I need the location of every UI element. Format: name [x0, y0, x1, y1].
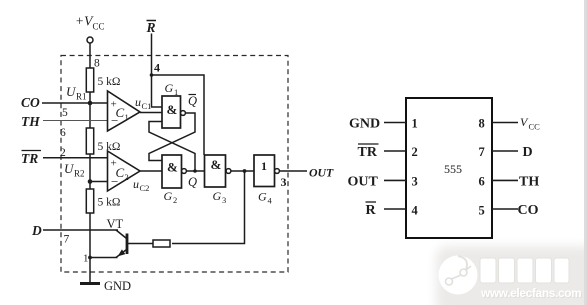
wire emitter to ground rail	[88, 256, 117, 260]
dashed 555 internal boundary box	[61, 56, 288, 273]
pin 7 number	[479, 145, 485, 159]
input CO label	[21, 95, 40, 110]
D pin label	[523, 145, 533, 160]
svg-text:8: 8	[94, 58, 100, 70]
wire C1 out to G1	[140, 112, 162, 114]
pin 6 line TH	[492, 179, 518, 181]
R pin label	[366, 202, 377, 218]
wire G3G4 node down to base resistor	[172, 171, 245, 244]
svg-text:TR: TR	[358, 145, 378, 160]
svg-text:R: R	[366, 203, 377, 218]
svg-text:CO: CO	[21, 95, 40, 110]
svg-text:7: 7	[64, 234, 70, 246]
svg-text:Q: Q	[188, 94, 197, 108]
svg-text:TH: TH	[519, 175, 539, 190]
wire OUT	[279, 170, 307, 172]
svg-text:www.elecfans.com: www.elecfans.com	[480, 286, 581, 300]
transistor VT	[116, 230, 127, 258]
svg-text:1: 1	[261, 159, 267, 173]
G1 output bubble	[181, 111, 186, 116]
wire TR to C2 plus	[43, 157, 108, 159]
R3 value 5k	[98, 197, 121, 209]
resistor R2	[86, 128, 93, 154]
svg-text:2: 2	[60, 147, 66, 159]
svg-text:GND: GND	[349, 117, 380, 132]
ground bar	[80, 282, 100, 285]
svg-text:G: G	[165, 81, 174, 95]
svg-text:R2: R2	[74, 169, 85, 179]
svg-text:6: 6	[60, 127, 66, 139]
G2 name	[164, 189, 178, 205]
nand gate G1	[162, 96, 181, 128]
svg-text:u: u	[133, 177, 139, 191]
OUT pin label	[348, 175, 379, 190]
svg-text:G: G	[164, 189, 173, 203]
watermark chinese text blobs	[480, 258, 569, 283]
svg-text:CO: CO	[518, 203, 539, 218]
wire CO to C1 plus	[42, 102, 108, 104]
svg-text:2: 2	[173, 195, 177, 205]
svg-text:GND: GND	[104, 279, 131, 293]
resistor R3	[86, 189, 93, 213]
pin 2 label	[60, 147, 66, 159]
svg-text:3: 3	[412, 175, 418, 189]
input TR label	[21, 151, 41, 167]
UR1 label	[66, 84, 87, 102]
pin 3 number	[412, 175, 418, 189]
Qbar label	[188, 94, 197, 108]
svg-text:C: C	[116, 105, 125, 120]
input D label	[31, 223, 42, 238]
svg-text:TR: TR	[21, 151, 38, 166]
pin 6 label	[60, 127, 66, 139]
pin 1 number	[412, 117, 418, 131]
pin 8 label	[94, 58, 100, 70]
svg-text:5: 5	[479, 204, 485, 218]
comparator C2	[108, 151, 141, 191]
svg-text:VT: VT	[107, 217, 124, 231]
pin 7 line D	[492, 150, 518, 152]
pin 4 number	[412, 204, 419, 218]
wire Qbar to G2 input (cross)	[149, 113, 195, 161]
pin 1 line GND	[384, 122, 406, 124]
G4 name	[258, 190, 273, 206]
nand gate G2	[162, 155, 182, 188]
svg-text:6: 6	[479, 175, 485, 189]
pin 3 line OUT	[384, 179, 406, 181]
svg-text:1: 1	[83, 253, 89, 265]
svg-text:G: G	[213, 189, 222, 203]
svg-text:CC: CC	[93, 22, 105, 32]
Q label	[188, 175, 197, 189]
svg-text:3: 3	[281, 175, 287, 189]
pin 6 number	[479, 175, 485, 189]
wire D to VT collector	[43, 229, 118, 231]
right edge gray band	[584, 0, 587, 305]
watermark background tint	[436, 246, 587, 305]
IC 555 package body	[406, 98, 492, 238]
+Vcc label	[75, 14, 105, 32]
wire Vcc to R1	[89, 43, 91, 68]
wire TH to C1 minus	[43, 120, 108, 122]
svg-text:R: R	[146, 20, 156, 35]
OUT label	[309, 166, 334, 180]
uC2 label	[133, 177, 149, 193]
pin 1 label	[83, 253, 89, 265]
svg-text:5 kΩ: 5 kΩ	[98, 76, 121, 88]
reset R-bar top label	[146, 20, 157, 35]
Vcc pin label	[520, 115, 540, 132]
svg-text:CC: CC	[529, 122, 541, 132]
wire R2 to R3	[89, 154, 91, 189]
svg-text:C2: C2	[140, 183, 150, 193]
svg-text:4: 4	[154, 61, 160, 75]
svg-text:555: 555	[444, 162, 462, 176]
uC1 label	[135, 95, 151, 111]
TH pin label	[519, 175, 539, 190]
pin 5 label	[62, 107, 68, 119]
resistor R1	[86, 68, 93, 92]
base resistor	[153, 240, 170, 247]
svg-text:7: 7	[479, 145, 485, 159]
pin 4 label	[154, 61, 160, 75]
G3 name	[213, 189, 227, 205]
svg-text:&: &	[211, 157, 222, 172]
wire C2 out to G2	[140, 170, 162, 172]
svg-text:&: &	[167, 102, 178, 117]
svg-text:8: 8	[479, 117, 485, 131]
svg-text:5: 5	[62, 107, 68, 119]
svg-text:4: 4	[412, 204, 419, 218]
G4 output bubble	[275, 169, 280, 174]
G2 output bubble	[182, 169, 187, 174]
pin 4 line R	[384, 208, 406, 210]
inverter G4	[254, 155, 275, 187]
wire R1 to R2	[89, 92, 91, 128]
UR2 label	[64, 161, 85, 179]
svg-text:R1: R1	[76, 92, 87, 102]
svg-text:1: 1	[174, 87, 178, 97]
pin 2 number	[412, 145, 418, 159]
VT label	[107, 217, 124, 231]
G3 output bubble	[226, 169, 231, 174]
pin 8 number	[479, 117, 485, 131]
pin 5 number	[479, 204, 485, 218]
R1 value 5k	[98, 76, 121, 88]
svg-text:2: 2	[125, 172, 129, 182]
pin 8 line Vcc	[492, 122, 518, 124]
R2 value 5k	[98, 141, 121, 153]
Vcc terminal	[87, 37, 93, 43]
G1 name	[165, 81, 179, 97]
svg-text:G: G	[258, 190, 267, 204]
TR pin label	[358, 144, 379, 160]
pin 5 line CO	[492, 208, 518, 210]
wire UR2 tap to C2	[90, 181, 108, 183]
node UR1 dot	[88, 101, 93, 106]
svg-text:D: D	[523, 145, 533, 160]
svg-text:u: u	[135, 95, 141, 109]
pin 2 line TR	[384, 150, 406, 152]
wire base resistor to VT	[128, 243, 153, 245]
watermark url	[480, 286, 582, 301]
svg-text:2: 2	[412, 145, 418, 159]
GND label	[104, 279, 131, 293]
wire R-bar rail to G3	[150, 73, 204, 155]
wire R-bar down	[151, 34, 153, 76]
GND pin label	[349, 117, 380, 132]
pin 7 label	[64, 234, 70, 246]
input TH label	[21, 114, 40, 129]
555 label	[444, 162, 462, 176]
node UR2 dot	[88, 179, 93, 184]
comparator C1	[108, 91, 141, 131]
CO pin label	[518, 203, 539, 218]
wire Q feedback to G1 input (cross)	[149, 122, 197, 173]
wire G3 to G4	[231, 169, 254, 173]
svg-text:OUT: OUT	[309, 166, 334, 180]
svg-text:3: 3	[222, 195, 226, 205]
svg-text:1: 1	[125, 112, 129, 122]
watermark logo circle	[439, 256, 478, 295]
svg-text:D: D	[31, 223, 42, 238]
svg-text:OUT: OUT	[348, 175, 379, 190]
svg-text:+V: +V	[75, 14, 94, 29]
pin 3 label	[281, 175, 287, 189]
svg-text:C1: C1	[142, 101, 152, 111]
svg-text:Q: Q	[188, 175, 197, 189]
wire R-bar stub into G1	[152, 75, 163, 107]
wire R3 to GND	[89, 213, 91, 283]
svg-text:&: &	[167, 160, 178, 175]
wire G2 to G3	[186, 170, 204, 172]
svg-text:5 kΩ: 5 kΩ	[98, 197, 121, 209]
svg-text:C: C	[116, 165, 125, 180]
nand gate G3	[205, 155, 226, 187]
svg-text:TH: TH	[21, 114, 40, 129]
svg-text:1: 1	[412, 117, 418, 131]
